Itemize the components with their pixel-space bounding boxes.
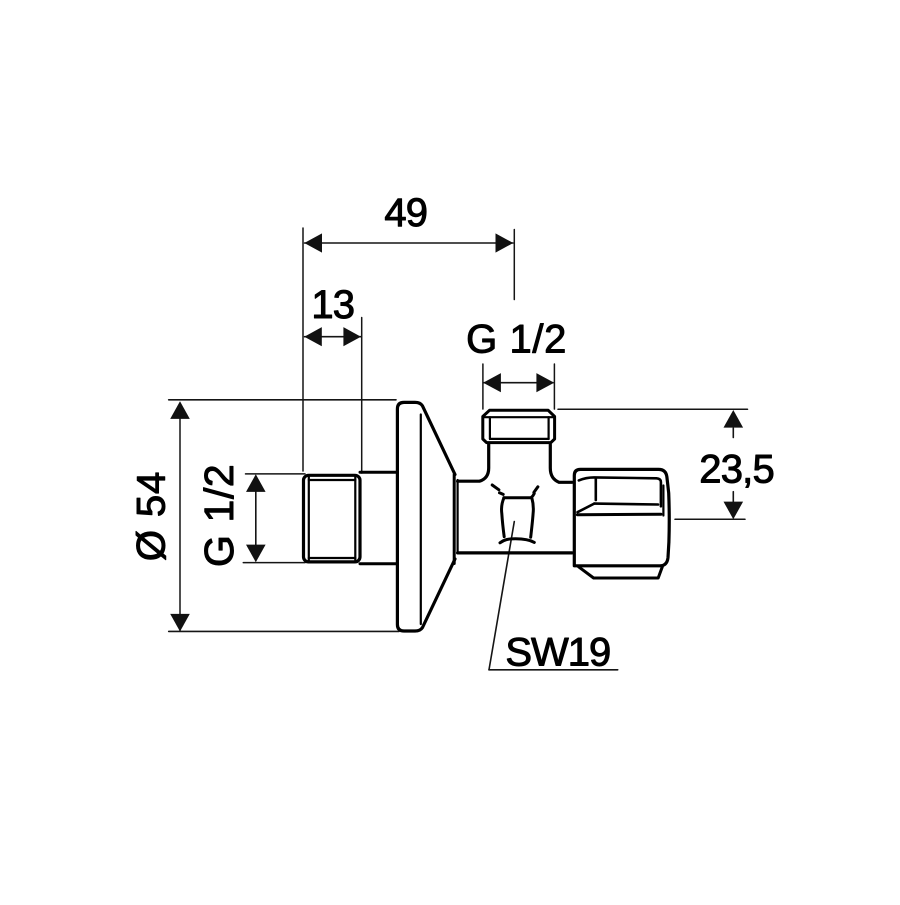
arrowhead G 1/2 left down [246, 545, 266, 563]
knob band lower line [577, 513, 661, 516]
svg-text:49: 49 [384, 191, 427, 235]
dimension line diameter 54 [179, 403, 181, 630]
wall thread inner left line [308, 477, 310, 561]
wall thread inner top line [309, 479, 356, 481]
extension line G 1/2 left top [246, 473, 306, 475]
valve waist bottom edge [500, 539, 534, 543]
body funnel transition left tick [500, 493, 504, 495]
knob second right vertical [662, 486, 664, 516]
svg-text:G 1/2: G 1/2 [466, 318, 567, 362]
flange lip outer edge [453, 475, 456, 564]
wall thread G1/2 outer rectangle [304, 475, 361, 562]
body funnel transition left dash [492, 485, 499, 490]
dimension line G 1/2 left [255, 491, 257, 546]
dimension line G 1/2 top [484, 382, 553, 384]
wall flange crease line [420, 415, 422, 625]
arrowhead 23,5 up [724, 410, 744, 428]
extension line 13 right [361, 318, 363, 474]
outlet thread collar outline [483, 410, 555, 442]
arrowhead G 1/2 top left [483, 373, 501, 392]
arrowhead 13 left [304, 327, 322, 346]
knob left short vertical [594, 479, 597, 500]
extension line diameter 54 bottom [169, 630, 399, 632]
arrowhead 49 right [496, 233, 514, 252]
dimension line 13 [305, 336, 361, 338]
collar inner left line [489, 417, 491, 439]
arrowhead 23,5 down [724, 502, 744, 520]
leader line SW19 [489, 522, 514, 670]
body pipe top-left edge and outlet left flare [458, 445, 489, 482]
extension line 23,5 bottom [675, 518, 745, 520]
arrowhead diameter 54 bottom [170, 614, 190, 632]
knob inner top line and right vertical [579, 477, 661, 506]
valve waist left edge [502, 498, 505, 537]
arrowhead diameter 54 top [170, 401, 190, 419]
arrowhead 13 right [343, 327, 361, 346]
svg-text:SW19: SW19 [505, 631, 610, 675]
neck between thread and flange top [360, 471, 396, 474]
valve waist right edge [531, 498, 534, 538]
arrowhead G 1/2 left up [246, 474, 266, 492]
valve waist SW19 top edge [504, 494, 534, 498]
extension line G 1/2 top right [553, 364, 555, 409]
extension line G 1/2 left bottom [243, 562, 305, 564]
neck between thread and flange bottom [360, 562, 396, 565]
leader underline SW19 [489, 669, 618, 671]
arrowhead 49 left [304, 233, 322, 252]
wall thread inner bottom line [309, 557, 356, 559]
extension line G 1/2 top left [482, 364, 484, 409]
extension line 49 right [513, 230, 515, 300]
dimension line 23,5 lower [732, 492, 734, 505]
flange lip inner edge [457, 480, 459, 553]
wall thread inner right line [354, 477, 356, 561]
dimension line 23,5 upper [732, 428, 734, 438]
knob band slant [578, 504, 595, 513]
wall flange outline [397, 402, 455, 631]
arrowhead G 1/2 top right [536, 373, 554, 392]
extension line 49 left [302, 228, 304, 471]
svg-text:13: 13 [311, 283, 354, 327]
knob skirt [579, 567, 663, 578]
collar inner right line [547, 417, 549, 439]
collar inner bottom line [490, 438, 549, 440]
body pipe bottom edge [458, 551, 572, 554]
outlet right edge and pipe top-right edge [550, 445, 572, 483]
knob outline [574, 469, 669, 565]
dimension line 49 [305, 242, 514, 244]
svg-text:Ø 54: Ø 54 [129, 471, 173, 561]
knob band upper line [594, 502, 658, 505]
extension line diameter 54 top [169, 399, 396, 401]
collar inner top line [484, 416, 555, 418]
extension line 23,5 top [558, 408, 748, 410]
body funnel transition right dash [534, 487, 538, 493]
svg-text:23,5: 23,5 [699, 448, 774, 492]
svg-text:G 1/2: G 1/2 [196, 464, 242, 567]
